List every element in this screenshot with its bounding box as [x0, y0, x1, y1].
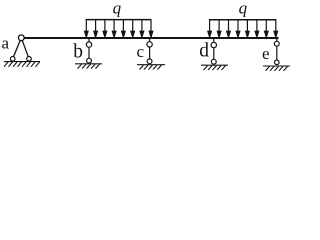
support d (vertical link) [213, 39, 215, 60]
beam ab-c-d-e [24, 37, 279, 39]
support c (vertical link) [149, 39, 151, 59]
load q2 arrows [208, 20, 278, 37]
svg-text:d: d [199, 41, 209, 62]
support a top pin circle [18, 35, 24, 41]
ground at b [75, 64, 102, 69]
svg-text:q: q [239, 0, 248, 18]
support a bottom pin circles [10, 57, 15, 62]
ground at d [201, 65, 228, 70]
svg-text:q: q [113, 0, 122, 18]
support e (vertical link) [276, 39, 278, 60]
ground at a [4, 62, 40, 67]
svg-text:a: a [2, 34, 10, 53]
ground at e [263, 66, 290, 71]
support a (pinned: two links) legs [13, 38, 29, 59]
svg-text:e: e [262, 44, 270, 63]
distributed load q2 line [209, 19, 277, 21]
load q1 arrows [85, 20, 153, 38]
distributed load q1 line [86, 19, 152, 21]
ground at c [137, 65, 165, 70]
svg-text:c: c [137, 42, 145, 61]
svg-text:b: b [73, 42, 83, 63]
support b (vertical link) [88, 39, 90, 59]
